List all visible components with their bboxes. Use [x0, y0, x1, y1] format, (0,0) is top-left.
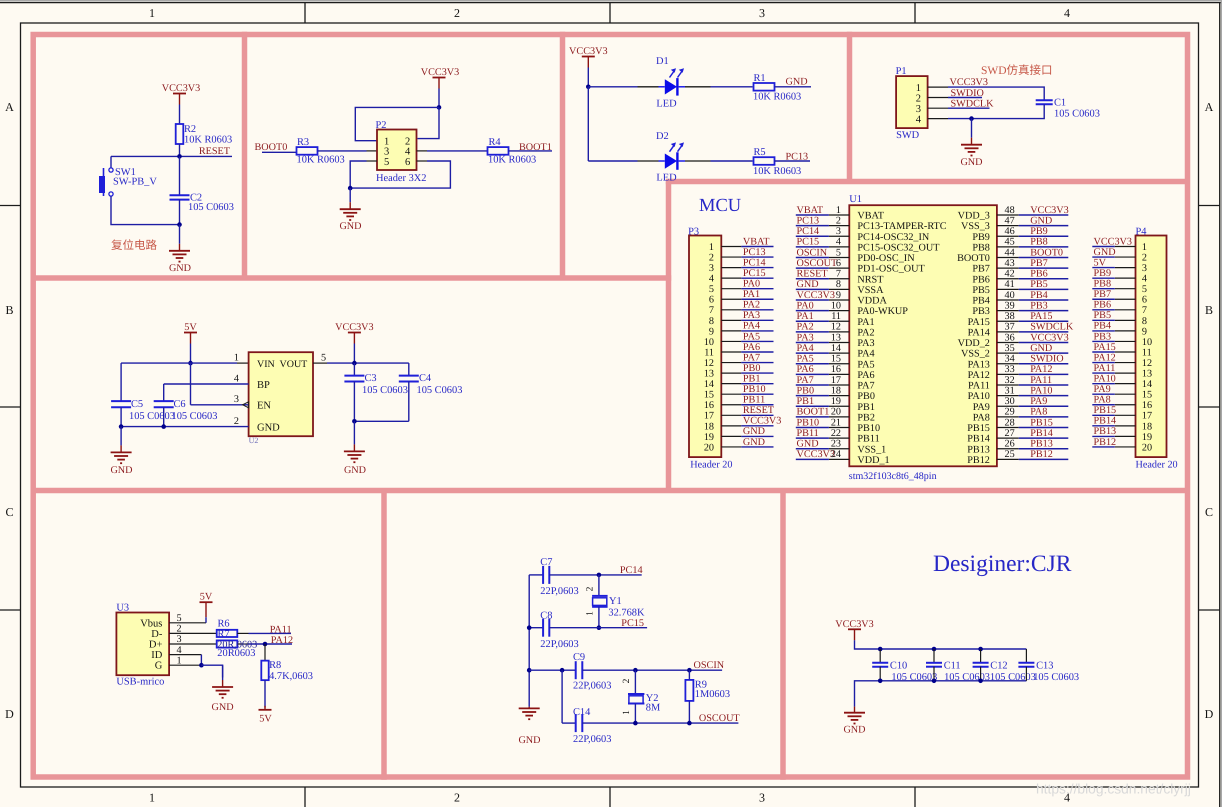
pin 8 U1 left wire / net GND — [796, 279, 850, 290]
svg-text:19: 19 — [1142, 432, 1152, 443]
svg-text:8: 8 — [709, 316, 714, 327]
wire VCC3V3 drop — [353, 344, 355, 364]
svg-text:36: 36 — [1005, 332, 1015, 343]
pin 32 U1 right wire / net PA11 — [997, 375, 1068, 386]
junction 5V — [188, 361, 193, 366]
power port 5V (usb) — [200, 592, 213, 618]
pin 24 U1 left wire / net VCC3V3 — [796, 449, 850, 460]
pin 18 P4 wire / net PB14 — [1092, 416, 1135, 427]
pin 47 U1 right wire / net GND — [997, 215, 1068, 226]
net label PC14 — [620, 565, 643, 576]
svg-text:3: 3 — [176, 634, 181, 645]
junction C12 top — [978, 647, 983, 652]
junction Y2 bottom — [633, 721, 638, 726]
svg-text:22: 22 — [831, 428, 841, 439]
room wall middle|bottom horizontal — [31, 488, 1191, 494]
svg-text:NRST: NRST — [857, 274, 884, 285]
wire VCC3V3 down to D1 row — [587, 68, 589, 87]
svg-text:D+: D+ — [149, 640, 163, 651]
svg-text:7: 7 — [836, 269, 841, 280]
svg-text:PB4: PB4 — [972, 296, 990, 307]
svg-text:PB15: PB15 — [1094, 405, 1117, 416]
pin 11 P4 wire / net PA15 — [1092, 342, 1135, 353]
wire Y2 pin1 — [622, 704, 635, 724]
led D1 — [656, 56, 684, 110]
svg-text:RESET: RESET — [797, 269, 829, 280]
capacitor C14 — [562, 707, 611, 745]
pin 3 P3 wire / net PC14 — [721, 257, 773, 268]
net label VCC3V3 (swd pin1) — [950, 77, 989, 88]
wire R8 bottom — [264, 680, 266, 707]
svg-text:37: 37 — [1005, 322, 1015, 333]
svg-text:C: C — [5, 505, 13, 519]
svg-text:PA1: PA1 — [743, 289, 760, 300]
column tick bottom 3|4 — [914, 787, 916, 807]
pin 15 P3 wire / net PB10 — [721, 384, 773, 395]
svg-text:33: 33 — [1005, 364, 1015, 375]
ground (swd) — [960, 119, 982, 168]
svg-text:2: 2 — [622, 678, 632, 683]
svg-text:1M0603: 1M0603 — [695, 689, 730, 700]
svg-text:PB5: PB5 — [1030, 279, 1048, 290]
pin 34 U1 right wire / net SWDIO — [997, 354, 1068, 365]
svg-text:PA6: PA6 — [797, 364, 814, 375]
pin 4 U1 left wire / net PC15 — [796, 237, 850, 248]
net label SWDCLK — [951, 99, 995, 110]
svg-text:Header 20: Header 20 — [1136, 460, 1178, 471]
svg-text:BP: BP — [257, 380, 270, 391]
pin 2 P3 wire / net PC13 — [721, 247, 773, 258]
header P4 — [1136, 227, 1178, 471]
svg-text:PA8: PA8 — [1094, 395, 1111, 406]
svg-text:13: 13 — [704, 369, 714, 380]
junction C9 left — [560, 668, 565, 673]
svg-text:PB13: PB13 — [967, 444, 990, 455]
svg-text:Vbus: Vbus — [140, 618, 162, 629]
junction VCC boot — [437, 105, 442, 110]
svg-text:D2: D2 — [656, 131, 669, 142]
svg-text:https://blog.csdn.net/clyrjj: https://blog.csdn.net/clyrjj — [1036, 782, 1191, 797]
svg-text:5V: 5V — [184, 322, 197, 333]
pin 13 P4 wire / net PA11 — [1092, 363, 1135, 374]
svg-text:22P,0603: 22P,0603 — [573, 681, 611, 692]
svg-text:5V: 5V — [259, 714, 272, 725]
svg-text:BOOT0: BOOT0 — [957, 253, 990, 264]
power port VCC3V3 (reset) — [162, 83, 201, 105]
svg-text:4.7K,0603: 4.7K,0603 — [269, 671, 313, 682]
wire P1 pin2 stub — [928, 97, 982, 99]
resistor R9 — [685, 670, 730, 723]
svg-text:R8: R8 — [269, 660, 281, 671]
svg-text:105 C0603: 105 C0603 — [1033, 672, 1079, 683]
svg-text:14: 14 — [1142, 379, 1152, 390]
svg-text:105 C0603: 105 C0603 — [1054, 109, 1100, 120]
pin 17 P3 wire / net RESET — [721, 405, 775, 416]
svg-text:RESET: RESET — [199, 146, 231, 157]
room wall top|power horizontal — [31, 275, 672, 281]
pin 14 U1 left wire / net PA4 — [796, 343, 850, 354]
junction led vcc — [586, 85, 591, 90]
svg-text:1: 1 — [149, 6, 155, 20]
svg-text:VBAT: VBAT — [857, 211, 884, 222]
label 复位电路 — [111, 239, 157, 252]
pin 3 P4 wire / net 5V — [1092, 257, 1135, 268]
pin 22 U1 left wire / net PB11 — [796, 428, 850, 439]
junction C10 bottom — [878, 679, 883, 684]
ground (designer) — [843, 707, 865, 736]
svg-text:B: B — [5, 303, 13, 317]
room wall led|swd vertical — [847, 32, 853, 182]
wire C3 C4 bottom rail — [354, 420, 408, 422]
header P3 — [688, 227, 732, 471]
svg-text:41: 41 — [1005, 279, 1015, 290]
svg-text:13: 13 — [831, 332, 841, 343]
net label SWDIO — [951, 88, 984, 99]
svg-text:6: 6 — [1142, 295, 1147, 306]
svg-text:PA0: PA0 — [797, 300, 814, 311]
svg-text:PA8: PA8 — [1030, 407, 1047, 418]
pin 15 P4 wire / net PA9 — [1092, 384, 1135, 395]
pin 19 U1 left wire / net PB1 — [796, 396, 850, 407]
pin 7 U1 left wire / net RESET — [796, 269, 850, 280]
svg-text:PA12: PA12 — [968, 370, 990, 381]
ground (boot) — [339, 188, 361, 232]
svg-text:6: 6 — [709, 295, 714, 306]
svg-text:15: 15 — [704, 390, 714, 401]
svg-text:PB5: PB5 — [1094, 310, 1112, 321]
room wall led/swd|mcu horizontal — [666, 179, 1190, 185]
svg-text:Header 3X2: Header 3X2 — [376, 173, 427, 184]
svg-text:2: 2 — [586, 586, 596, 591]
pin 18 P3 wire / net VCC3V3 — [721, 416, 781, 427]
svg-text:PB4: PB4 — [1094, 321, 1112, 332]
svg-text:PA2: PA2 — [797, 322, 814, 333]
svg-text:10K R0603: 10K R0603 — [488, 155, 536, 166]
svg-text:1: 1 — [149, 791, 155, 805]
svg-text:RESET: RESET — [743, 405, 775, 416]
svg-text:D1: D1 — [656, 56, 669, 67]
svg-text:PA5: PA5 — [797, 354, 814, 365]
led D2 — [656, 131, 684, 184]
column tick top 1|2 — [304, 3, 306, 23]
svg-text:SW-PB_V: SW-PB_V — [113, 177, 157, 188]
svg-text:C1: C1 — [1054, 98, 1066, 109]
svg-text:PB14: PB14 — [1094, 416, 1117, 427]
svg-text:11: 11 — [1142, 347, 1152, 358]
svg-text:MCU: MCU — [699, 196, 741, 216]
svg-text:VCC3V3: VCC3V3 — [835, 619, 874, 630]
pin 9 P4 wire / net PB4 — [1092, 321, 1135, 332]
sheet outer border right line — [1219, 3, 1221, 807]
svg-text:C6: C6 — [174, 399, 186, 410]
pin 23 U1 left wire / net GND — [796, 439, 850, 450]
svg-text:9: 9 — [1142, 326, 1147, 337]
svg-text:PB9: PB9 — [972, 232, 990, 243]
svg-text:43: 43 — [1005, 258, 1015, 269]
wire P2 pin5 to GND — [350, 161, 377, 188]
net label PC13 (led) — [786, 151, 809, 162]
svg-text:5: 5 — [176, 613, 181, 624]
junction usb gnd — [199, 663, 204, 668]
svg-text:5: 5 — [709, 284, 714, 295]
svg-text:PB7: PB7 — [1094, 289, 1112, 300]
svg-text:105 C0603: 105 C0603 — [129, 411, 175, 422]
pin 41 U1 right wire / net PB5 — [997, 279, 1068, 290]
svg-text:4: 4 — [1142, 274, 1147, 285]
svg-text:105 C0603: 105 C0603 — [891, 672, 937, 683]
svg-text:8M: 8M — [646, 703, 660, 714]
wire down to SW1 — [110, 156, 112, 167]
ground (regulator left) — [110, 427, 132, 476]
svg-text:PA3: PA3 — [743, 310, 760, 321]
svg-text:PB15: PB15 — [1030, 417, 1053, 428]
mcu U1 — [849, 194, 997, 482]
svg-text:U1: U1 — [849, 194, 862, 205]
svg-text:20: 20 — [1142, 442, 1152, 453]
svg-text:PA8: PA8 — [973, 412, 990, 423]
svg-text:GND: GND — [344, 465, 366, 476]
svg-text:PA3: PA3 — [797, 332, 814, 343]
label 20R0603 — [217, 648, 255, 659]
svg-text:2: 2 — [916, 93, 921, 104]
svg-text:7: 7 — [1142, 305, 1147, 316]
svg-text:PA7: PA7 — [797, 375, 814, 386]
pin 12 P3 wire / net PA7 — [721, 352, 773, 363]
svg-text:PA4: PA4 — [797, 343, 814, 354]
svg-text:8: 8 — [1142, 316, 1147, 327]
svg-text:VCC3V3: VCC3V3 — [1030, 205, 1069, 216]
svg-text:PA12: PA12 — [1094, 352, 1116, 363]
svg-text:20R0603: 20R0603 — [217, 648, 255, 659]
power port VCC3V3 (regulator) — [335, 322, 374, 344]
sheet outer border top line — [0, 2, 1222, 4]
svg-text:2: 2 — [176, 624, 181, 635]
capacitor C6 — [154, 399, 218, 427]
junction VOUT vcc — [352, 361, 357, 366]
svg-text:PB1: PB1 — [743, 373, 761, 384]
power port VCC3V3 (boot) — [421, 67, 460, 89]
svg-text:VSS_1: VSS_1 — [857, 444, 886, 455]
svg-text:46: 46 — [1005, 226, 1015, 237]
wire OSCIN row right — [582, 669, 722, 671]
svg-text:10: 10 — [1142, 337, 1152, 348]
svg-text:105 C0603: 105 C0603 — [990, 672, 1036, 683]
wire P2 pin4 to R4 — [417, 150, 489, 152]
svg-text:PB9: PB9 — [1030, 226, 1048, 237]
capacitor C7 — [529, 557, 599, 597]
svg-text:Desiginer:CJR: Desiginer:CJR — [933, 551, 1072, 577]
svg-text:105 C0603: 105 C0603 — [362, 385, 408, 396]
svg-text:5V: 5V — [200, 592, 213, 603]
svg-text:GND: GND — [786, 77, 808, 88]
svg-text:OSCIN: OSCIN — [797, 247, 828, 258]
svg-text:GND: GND — [257, 422, 280, 433]
svg-text:PB1: PB1 — [857, 402, 875, 413]
svg-text:C11: C11 — [944, 660, 961, 671]
junction P2 gnd — [348, 186, 353, 191]
svg-text:6: 6 — [836, 258, 841, 269]
svg-text:1: 1 — [836, 205, 841, 216]
wire VCC3V3 to R2 — [179, 105, 181, 125]
svg-text:44: 44 — [1005, 247, 1015, 258]
svg-text:GND: GND — [110, 465, 132, 476]
svg-text:PA5: PA5 — [743, 331, 760, 342]
pin 35 U1 right wire / net GND — [997, 343, 1068, 354]
svg-text:PB1: PB1 — [797, 396, 815, 407]
wire R6 to PA11 — [237, 632, 291, 634]
window top gray strip — [0, 0, 1222, 2]
svg-text:C5: C5 — [131, 399, 143, 410]
svg-text:BOOT0: BOOT0 — [255, 142, 288, 153]
resistor R5 — [753, 147, 801, 177]
svg-text:18: 18 — [704, 421, 714, 432]
pin 2 P4 wire / net GND — [1092, 247, 1135, 258]
pin 16 U1 left wire / net PA6 — [796, 364, 850, 375]
svg-text:USB-mrico: USB-mrico — [116, 676, 164, 687]
svg-text:VDD_2: VDD_2 — [958, 338, 990, 349]
svg-text:6: 6 — [405, 157, 410, 168]
room wall boot|led vertical — [560, 32, 566, 278]
svg-text:30: 30 — [1005, 396, 1015, 407]
svg-text:25: 25 — [1005, 449, 1015, 460]
svg-text:10K R0603: 10K R0603 — [753, 166, 801, 177]
pin 27 U1 right wire / net PB14 — [997, 428, 1068, 439]
svg-text:PC15-OSC32_OUT: PC15-OSC32_OUT — [857, 242, 940, 253]
svg-text:4: 4 — [916, 114, 922, 125]
capacitor C10 — [872, 649, 937, 683]
svg-text:PA9: PA9 — [1030, 396, 1047, 407]
wire R7 to PA12 — [237, 643, 292, 645]
pin 10 P3 wire / net PA5 — [721, 331, 773, 342]
wire C14 drop — [561, 670, 563, 723]
junction C6 gnd — [161, 424, 166, 429]
svg-text:4: 4 — [1064, 6, 1070, 20]
svg-text:14: 14 — [831, 343, 841, 354]
svg-text:C12: C12 — [990, 660, 1007, 671]
wire loop to P2 pin1 — [355, 107, 439, 140]
junction trunk C8 — [527, 625, 532, 630]
svg-text:VCC3V3: VCC3V3 — [743, 416, 782, 427]
svg-text:7: 7 — [709, 305, 714, 316]
pin4 ID wire — [169, 645, 201, 656]
svg-text:PB13: PB13 — [1030, 439, 1053, 450]
pin 3 U1 left wire / net PC14 — [796, 226, 850, 237]
svg-text:B: B — [1205, 303, 1213, 317]
pin 21 U1 left wire / net PB10 — [796, 417, 850, 428]
wire C1 to pin4 net — [928, 104, 1045, 118]
pin 8 P4 wire / net PB5 — [1092, 310, 1135, 321]
svg-text:PB12: PB12 — [1030, 449, 1053, 460]
wire R5 to PC13 label — [775, 160, 811, 162]
wire EN to 5V — [190, 363, 192, 405]
junction C2 GND — [177, 222, 182, 227]
resistor R1 — [753, 73, 801, 103]
svg-text:PA10: PA10 — [968, 391, 990, 402]
room wall crystal|designer vertical — [780, 488, 786, 780]
svg-text:R5: R5 — [754, 147, 766, 158]
svg-text:GND: GND — [339, 221, 361, 232]
row tick left B|C — [0, 406, 21, 408]
svg-text:PB3: PB3 — [1030, 300, 1048, 311]
row tick right B|C — [1199, 406, 1221, 408]
wire SW1 to C2 bottom node — [111, 197, 180, 225]
junction C13 top — [0, 0, 1, 1]
svg-text:1: 1 — [234, 353, 239, 364]
pin 10 U1 left wire / net PA0 — [796, 300, 850, 311]
pin 17 U1 left wire / net PA7 — [796, 375, 850, 386]
pin 48 U1 right wire / net VCC3V3 — [997, 205, 1069, 216]
svg-text:C13: C13 — [1036, 660, 1053, 671]
pin 16 P4 wire / net PA8 — [1092, 395, 1135, 406]
svg-text:4: 4 — [176, 645, 181, 656]
svg-text:3: 3 — [234, 394, 239, 405]
pin 42 U1 right wire / net PB6 — [997, 269, 1068, 280]
svg-text:D: D — [1205, 707, 1214, 721]
svg-text:PA10: PA10 — [1030, 385, 1052, 396]
svg-text:40: 40 — [1005, 290, 1015, 301]
net label PA12 — [271, 635, 293, 646]
svg-text:GND: GND — [843, 725, 865, 736]
row tick left A|B — [0, 205, 21, 207]
wire OSCIN row left — [529, 669, 576, 671]
pin 13 P3 wire / net PB0 — [721, 363, 773, 374]
svg-text:C: C — [1205, 505, 1213, 519]
svg-text:PA9: PA9 — [1094, 384, 1111, 395]
junction trunk OSCIN — [527, 668, 532, 673]
svg-text:PA12: PA12 — [1030, 364, 1052, 375]
wire Y1 pin2 — [586, 575, 599, 596]
svg-text:VCC3V3: VCC3V3 — [162, 83, 201, 94]
pin 13 U1 left wire / net PA3 — [796, 332, 850, 343]
svg-text:PB11: PB11 — [797, 428, 819, 439]
header P1 — [896, 66, 928, 141]
label 20R,0603 overlap — [217, 640, 257, 651]
svg-text:C4: C4 — [419, 373, 432, 384]
pin 12 P4 wire / net PA12 — [1092, 352, 1135, 363]
svg-text:PB13: PB13 — [1094, 426, 1117, 437]
svg-text:PB14: PB14 — [1030, 428, 1053, 439]
svg-text:22P,0603: 22P,0603 — [540, 586, 578, 597]
label MCU — [699, 196, 741, 216]
wire crystal trunk — [528, 575, 530, 707]
svg-text:38: 38 — [1005, 311, 1015, 322]
svg-text:VSSA: VSSA — [857, 285, 884, 296]
pin 43 U1 right wire / net PB7 — [997, 258, 1068, 269]
svg-text:PB0: PB0 — [797, 385, 815, 396]
junction Y1 bottom — [597, 625, 602, 630]
svg-text:22P,0603: 22P,0603 — [573, 734, 611, 745]
wire VCC down to D2 row — [587, 87, 589, 161]
power port 5V inverted (usb) — [259, 706, 273, 725]
resistor R8 — [261, 660, 313, 682]
svg-text:PA13: PA13 — [968, 359, 990, 370]
svg-text:5: 5 — [321, 353, 326, 364]
wire VIN rail — [121, 362, 237, 364]
usb U3 — [116, 603, 169, 688]
wire C2 to GND node — [179, 200, 181, 225]
svg-text:VCC3V3: VCC3V3 — [335, 322, 374, 333]
pin 4 P3 wire / net PC15 — [721, 268, 773, 279]
svg-text:10: 10 — [831, 300, 841, 311]
svg-text:GND: GND — [1094, 247, 1116, 258]
svg-text:PB6: PB6 — [972, 274, 990, 285]
svg-text:32: 32 — [1005, 375, 1015, 386]
pin5 line U2 — [313, 353, 327, 364]
svg-text:PA15: PA15 — [968, 317, 990, 328]
svg-text:11: 11 — [704, 347, 714, 358]
pin 37 U1 right wire / net SWDCLK — [997, 322, 1074, 333]
svg-text:105 C0603: 105 C0603 — [417, 385, 463, 396]
